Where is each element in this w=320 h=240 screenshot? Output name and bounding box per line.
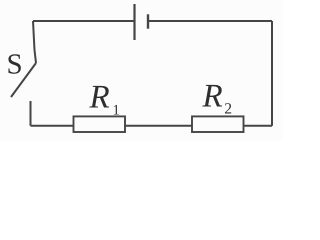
resistor R2 box <box>192 116 244 132</box>
wire between R2 and R1 <box>125 125 192 127</box>
switch bottom contact wire <box>30 101 32 126</box>
label R2 <box>202 85 222 107</box>
wire top-left horizontal (corner to battery) <box>33 20 135 22</box>
wire top-left vertical down to switch <box>33 21 36 63</box>
label S (switch) <box>8 54 20 73</box>
label R1 <box>89 86 109 108</box>
wire right vertical <box>271 21 273 126</box>
resistor R1 box <box>74 116 126 132</box>
wire bottom-left (R1 to corner) <box>31 125 74 127</box>
wire top-right horizontal (battery to corner) <box>148 20 272 22</box>
label R2 subscript 2 <box>225 103 231 113</box>
wire bottom-right (corner to R2) <box>244 125 273 127</box>
label R1 subscript 1 <box>114 105 119 115</box>
switch S blade (open) <box>11 63 36 97</box>
battery cell: short plate (negative) <box>147 14 149 28</box>
battery cell: long plate (positive) <box>133 4 135 40</box>
